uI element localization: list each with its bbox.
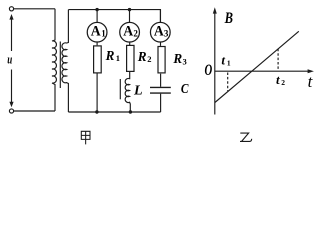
terminal top-left [9,7,13,11]
label R1 [105,49,120,64]
label t [308,72,314,91]
svg-text:3: 3 [183,56,187,66]
voltage arrow u [9,14,13,107]
label t1 [221,53,231,68]
t axis [215,69,314,73]
inductor L [125,72,130,112]
svg-text:R: R [172,52,182,67]
B(t) line [215,31,299,102]
resistor R2 [127,42,134,71]
node junction top branch 1 [95,8,98,11]
svg-text:C: C [181,82,189,97]
svg-text:3: 3 [164,29,169,39]
svg-text:A: A [91,24,101,40]
transformer secondary coil [62,10,68,112]
transformer core [59,42,61,89]
node junction bottom branch 1 [95,110,98,113]
transformer primary coil [52,9,56,111]
wire top of parallel circuit [68,10,160,23]
label t2 [276,72,285,87]
svg-text:R: R [105,49,115,64]
wire branch 2 top lead [129,10,131,23]
ammeter A3 [150,22,170,42]
label R2 [137,50,152,65]
label jia (figure 1 caption) [81,131,90,144]
resistor R1 [94,42,102,73]
label L [133,84,143,99]
svg-text:2: 2 [147,54,151,64]
wire source bottom [14,110,55,112]
wire branch 1 bottom [96,74,98,113]
svg-text:t: t [276,72,280,87]
svg-text:2: 2 [133,29,138,39]
resistor R3 [158,42,165,73]
dashed line t2 [277,49,279,71]
dashed line t1 [227,73,229,92]
node junction bottom branch 2 [129,110,132,113]
svg-text:O: O [205,62,213,79]
svg-text:u: u [7,53,12,67]
svg-text:L: L [133,84,143,99]
svg-text:R: R [137,50,147,65]
svg-text:2: 2 [281,78,285,87]
label C [181,82,189,97]
svg-text:A: A [123,24,133,40]
svg-text:t: t [221,53,225,68]
capacitor C [150,74,171,112]
terminal bottom-left [9,109,13,113]
B axis [213,7,217,114]
ammeter A2 [120,22,140,42]
svg-text:1: 1 [116,53,120,63]
ammeter A1 [87,22,107,42]
svg-text:B: B [224,10,233,27]
svg-text:1: 1 [227,59,231,68]
label B [224,10,233,27]
label R3 [172,52,186,67]
svg-text:A: A [154,24,164,40]
label O [205,62,213,79]
wire source top [14,8,55,10]
svg-text:t: t [308,72,314,91]
wire bottom of parallel circuit [68,111,160,113]
svg-text:1: 1 [101,29,106,39]
label yi (figure 2 caption) [240,133,252,141]
node junction top branch 2 [128,8,131,11]
label u [7,53,12,67]
inductor L core [119,79,121,99]
wire branch 1 top lead [96,10,98,23]
wire branch 3 top lead [159,10,161,23]
